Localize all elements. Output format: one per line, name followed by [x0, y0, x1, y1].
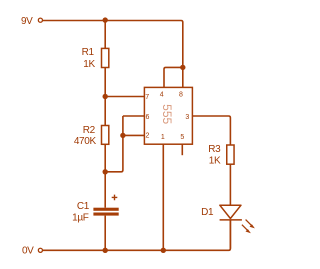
wire R3 bottom to LED — [229, 164, 231, 205]
wire node A down to R1 top — [104, 20, 106, 48]
svg-text:R2: R2 — [83, 125, 96, 136]
svg-text:7: 7 — [145, 94, 149, 101]
wire pin 4 tie to supply node — [164, 67, 183, 87]
svg-text:C1: C1 — [77, 201, 90, 212]
svg-text:1µF: 1µF — [72, 213, 89, 224]
node F junction dot pin1/bottom rail — [161, 248, 166, 253]
wire C1 bottom plate to bottom rail — [104, 216, 106, 251]
wire bottom rail from 0V terminal to LED column — [43, 220, 231, 250]
svg-text:5: 5 — [180, 134, 184, 141]
wire LED to bottom rail corner — [229, 220, 231, 249]
wire pin 5 stub — [181, 144, 183, 155]
svg-text:6: 6 — [146, 114, 150, 121]
svg-text:1K: 1K — [209, 155, 221, 166]
node G junction dot pins 4-8 supply — [180, 65, 185, 70]
LED D1 triangle — [220, 205, 241, 218]
IC U1 555 timer body — [144, 87, 192, 144]
wire pin 6 — [123, 115, 144, 117]
svg-text:555: 555 — [160, 104, 174, 124]
node B junction dot R1/R2/pin7 — [103, 94, 108, 99]
resistor R1 — [102, 48, 109, 67]
node C junction dot R2/C1 — [103, 169, 108, 174]
terminal 0V — [38, 248, 42, 252]
label C1 polarity + — [112, 195, 118, 201]
resistor R2 — [102, 126, 109, 145]
node E junction dot C1/bottom rail — [103, 248, 108, 253]
LED light arrow 1 — [246, 220, 255, 229]
svg-text:R1: R1 — [82, 47, 95, 58]
wire R1 bottom to node B — [104, 68, 106, 97]
LED D1 cathode bar — [220, 219, 242, 221]
wire pin 7 — [105, 96, 144, 98]
svg-text:9V: 9V — [21, 16, 33, 27]
svg-text:470K: 470K — [74, 136, 97, 147]
terminal 9V — [38, 18, 42, 22]
svg-text:1K: 1K — [83, 59, 95, 70]
wire top rail from 9V terminal to top-right corner down to pin 8 — [43, 21, 183, 88]
svg-text:4: 4 — [160, 92, 164, 99]
wire pin 1 to bottom rail — [162, 144, 164, 250]
svg-text:D1: D1 — [201, 207, 214, 218]
wire R2 bottom to node C — [104, 144, 106, 172]
LED light arrow 2 — [242, 225, 251, 234]
svg-text:2: 2 — [146, 133, 150, 140]
node D junction dot pin2/pin6 tie — [120, 133, 125, 138]
wire pin 2 — [123, 134, 144, 136]
wire pin 3 to R3 top — [192, 116, 230, 145]
capacitor C1 top plate — [93, 208, 118, 211]
wire node B to R2 top — [104, 97, 106, 126]
svg-text:1: 1 — [161, 134, 165, 141]
wire node C down to C1 top plate — [104, 172, 106, 208]
svg-text:3: 3 — [185, 114, 189, 121]
wire node C right and up to pin2/pin6 tie — [105, 116, 123, 172]
node A junction dot top rail / R1 — [103, 17, 108, 22]
svg-text:8: 8 — [179, 92, 183, 99]
capacitor C1 bottom plate — [93, 213, 118, 216]
resistor R3 — [227, 145, 234, 164]
svg-text:R3: R3 — [208, 144, 221, 155]
svg-text:0V: 0V — [22, 245, 34, 256]
